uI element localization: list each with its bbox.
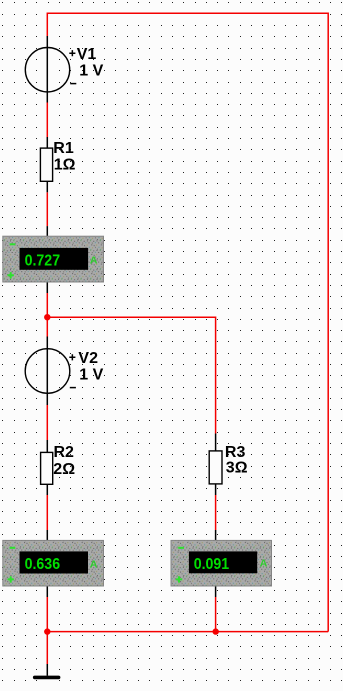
wire: R1 to ammeter U1 <box>46 192 48 226</box>
U1 top lead <box>46 226 48 236</box>
V1 circle body <box>25 47 69 91</box>
U2 plus terminal mark <box>8 576 14 582</box>
U1 plus terminal mark <box>8 272 14 278</box>
U2 display window <box>20 551 89 573</box>
U3 minus terminal mark <box>178 547 184 549</box>
wire: bottom rail <box>47 631 328 633</box>
R1 body <box>40 148 52 181</box>
wire: node A to V2 <box>46 317 48 336</box>
resistor R1 <box>40 137 75 192</box>
svg-text:1Ω: 1Ω <box>54 156 76 173</box>
U2 meter body <box>3 540 104 586</box>
V2 plus terminal mark <box>69 354 75 360</box>
ammeter U1 (0.727 A) <box>3 226 104 293</box>
wire: V2- to R2 <box>46 405 48 440</box>
wire: V1- to R1 <box>46 103 48 138</box>
R1 bottom lead <box>46 181 48 192</box>
U1 display window <box>20 248 89 270</box>
U1 meter body <box>3 236 104 282</box>
svg-text:V2: V2 <box>78 350 98 367</box>
svg-text:2Ω: 2Ω <box>53 461 75 478</box>
wire: R2 to U2 <box>46 495 48 530</box>
resistor R3 <box>209 434 247 496</box>
R2 body <box>41 452 53 484</box>
U2 top lead <box>46 530 48 540</box>
U1 minus terminal mark <box>10 243 16 245</box>
svg-text:0.727: 0.727 <box>25 252 61 269</box>
wire: R3 to U3 <box>215 495 217 530</box>
svg-text:R1: R1 <box>53 140 74 157</box>
svg-text:A: A <box>90 558 98 570</box>
svg-text:V1: V1 <box>77 46 97 63</box>
U2 minus terminal mark <box>10 547 16 549</box>
U1 bottom lead <box>46 282 48 293</box>
wire: V1+ up to top rail and right rail down <box>47 13 328 631</box>
R3 top lead <box>215 434 217 451</box>
U3 meter body <box>171 540 272 586</box>
voltage source V1 <box>25 36 103 103</box>
V1 minus terminal mark <box>70 83 76 85</box>
V1 lead wire <box>46 36 48 103</box>
svg-text:3Ω: 3Ω <box>226 459 248 476</box>
V1 plus terminal mark <box>69 50 75 56</box>
R3 body <box>209 451 222 484</box>
V2 circle body <box>25 349 70 394</box>
wire: U2 to bottom node <box>46 597 48 632</box>
ammeter U2 (0.636 A) <box>3 530 104 597</box>
R1 top lead <box>46 137 48 148</box>
U3 plus terminal mark <box>176 576 182 582</box>
wire: node A to R3 branch <box>47 317 215 433</box>
svg-text:1 V: 1 V <box>79 367 103 384</box>
node A junction <box>44 314 50 320</box>
svg-text:A: A <box>90 255 98 267</box>
bottom-left junction <box>44 628 50 634</box>
U3 display window <box>189 551 257 573</box>
voltage source V2 <box>25 337 103 406</box>
V2 minus terminal mark <box>70 387 76 389</box>
bottom-right junction <box>213 628 219 634</box>
R3 bottom lead <box>215 484 217 495</box>
ground lead <box>46 664 48 676</box>
svg-text:R2: R2 <box>54 444 75 461</box>
V2 lead wire <box>46 337 48 406</box>
wire: bottom node to ground <box>46 632 48 664</box>
R2 bottom lead <box>46 484 48 495</box>
ground bar <box>35 676 59 680</box>
U3 bottom lead <box>215 586 217 597</box>
U3 top lead <box>215 530 217 540</box>
U2 bottom lead <box>46 586 48 597</box>
R2 top lead <box>46 440 48 452</box>
wire: U3 to bottom node <box>215 597 217 632</box>
ground <box>35 664 59 677</box>
resistor R2 <box>41 440 76 495</box>
wire: U1 to node A <box>46 293 48 317</box>
svg-text:1 V: 1 V <box>79 62 103 79</box>
svg-text:A: A <box>260 558 268 570</box>
svg-text:0.636: 0.636 <box>25 556 61 573</box>
svg-text:0.091: 0.091 <box>194 556 230 573</box>
ammeter U3 (0.091 A) <box>171 530 272 597</box>
